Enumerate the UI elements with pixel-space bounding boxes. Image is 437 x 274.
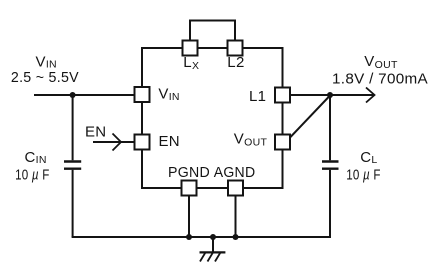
svg-text:VOUT: VOUT xyxy=(364,53,398,71)
wire CL bottom lead xyxy=(329,170,331,237)
wire LX-L2 external bridge xyxy=(190,21,235,41)
svg-text:10 µ F: 10 µ F xyxy=(346,166,381,183)
pin L2 xyxy=(228,41,243,56)
svg-text:2.5 ~ 5.5V: 2.5 ~ 5.5V xyxy=(11,69,79,86)
svg-text:10 µ F: 10 µ F xyxy=(15,166,50,183)
wire CIN bottom lead xyxy=(72,170,74,237)
ground xyxy=(200,237,226,262)
pin PGND xyxy=(182,181,197,196)
EN arrowhead xyxy=(113,134,122,151)
svg-text:L2: L2 xyxy=(227,54,244,71)
node ground junction xyxy=(210,234,216,240)
pin VOUT xyxy=(275,135,290,150)
wire VIN input xyxy=(34,94,135,96)
wire AGND lead xyxy=(235,196,237,238)
node input junction xyxy=(70,92,76,98)
IC U1 body xyxy=(142,48,283,188)
wire EN input xyxy=(93,141,135,143)
svg-text:L1: L1 xyxy=(249,88,266,105)
svg-text:EN: EN xyxy=(159,133,180,150)
VOUT arrowhead xyxy=(366,88,375,103)
svg-text:AGND: AGND xyxy=(214,164,256,181)
svg-text:CIN: CIN xyxy=(25,149,47,166)
wire VOUT output xyxy=(290,94,374,96)
node PGND junction xyxy=(186,234,192,240)
node AGND junction xyxy=(233,234,239,240)
svg-text:PGND: PGND xyxy=(168,164,210,181)
capacitor CL xyxy=(322,162,339,169)
svg-text:CL: CL xyxy=(360,149,377,166)
wire ground rail xyxy=(72,236,331,238)
pin VIN xyxy=(135,87,150,102)
node output junction xyxy=(327,92,333,98)
pin EN xyxy=(135,135,150,150)
svg-text:1.8V / 700mA: 1.8V / 700mA xyxy=(332,70,428,87)
wire CL top lead xyxy=(329,95,331,160)
pin AGND xyxy=(228,181,243,196)
capacitor CIN xyxy=(64,162,81,169)
wire PGND lead xyxy=(188,196,190,238)
pin L1 xyxy=(275,88,290,103)
svg-text:EN: EN xyxy=(85,124,106,141)
pin LX xyxy=(183,41,198,56)
wire VOUT pin diagonal xyxy=(291,95,331,137)
svg-text:VIN: VIN xyxy=(36,53,57,70)
wire CIN top lead xyxy=(72,95,74,160)
